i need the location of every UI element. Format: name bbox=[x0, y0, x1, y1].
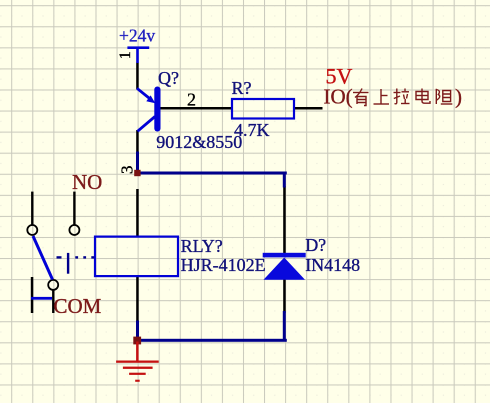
svg-text:2: 2 bbox=[187, 90, 196, 110]
svg-text:D?: D? bbox=[305, 235, 326, 255]
svg-text:9012&8550: 9012&8550 bbox=[156, 132, 242, 152]
svg-text:1: 1 bbox=[117, 51, 134, 59]
svg-text:3: 3 bbox=[118, 166, 137, 175]
svg-text:+24v: +24v bbox=[119, 26, 155, 46]
svg-text:RLY?: RLY? bbox=[181, 236, 223, 256]
svg-text:4.7K: 4.7K bbox=[234, 120, 270, 140]
svg-text:R?: R? bbox=[232, 78, 252, 98]
svg-text:): ) bbox=[455, 85, 462, 109]
svg-text:COM: COM bbox=[54, 294, 102, 318]
svg-text:Q?: Q? bbox=[158, 68, 179, 88]
svg-text:IN4148: IN4148 bbox=[305, 255, 360, 275]
svg-text:HJR-4102E: HJR-4102E bbox=[181, 255, 266, 275]
svg-text:NO: NO bbox=[72, 170, 102, 194]
svg-text:IO(: IO( bbox=[324, 85, 353, 109]
